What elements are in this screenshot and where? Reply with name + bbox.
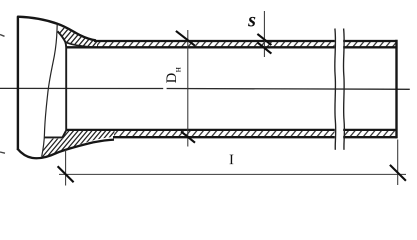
- svg-text:н: н: [173, 67, 183, 72]
- svg-text:D: D: [164, 73, 180, 83]
- svg-text:s: s: [247, 9, 256, 31]
- svg-text:I: I: [229, 152, 234, 168]
